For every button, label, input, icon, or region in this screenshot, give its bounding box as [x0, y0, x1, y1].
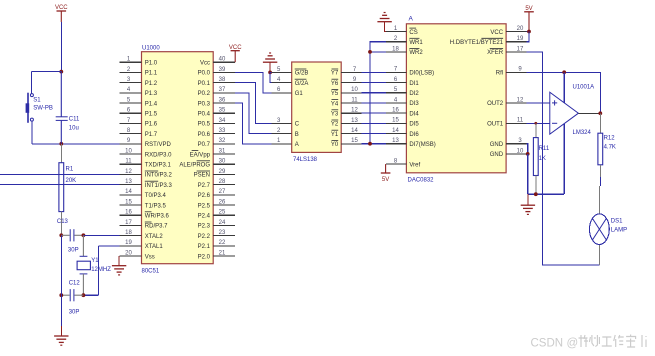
wire Rfl feedback [527, 72, 601, 113]
svg-text:SW-PB: SW-PB [33, 106, 53, 112]
svg-text:21: 21 [219, 250, 226, 256]
svg-text:P1.7: P1.7 [145, 132, 158, 138]
74LS138 pin 4 G2A [271, 77, 308, 87]
svg-text:12: 12 [125, 169, 132, 175]
svg-text:11: 11 [351, 97, 358, 103]
svg-text:RXD/P3.0: RXD/P3.0 [145, 152, 172, 158]
svg-text:P2.2: P2.2 [198, 234, 211, 240]
svg-text:P1.0: P1.0 [145, 61, 158, 67]
wire op-amp V- pin [563, 124, 565, 194]
U1000 pin 2 P1.1 [120, 67, 158, 77]
junction R11 bottom [534, 192, 538, 196]
svg-text:P1.2: P1.2 [145, 81, 158, 87]
wire R1 to C13 node [60, 212, 62, 236]
DAC0832 pin 20 VCC [490, 26, 526, 36]
svg-text:10: 10 [351, 87, 358, 93]
svg-text:P1.3: P1.3 [145, 91, 158, 97]
wire INT1/P3.3 net [0, 184, 120, 186]
junction G2B/G2A [268, 71, 272, 75]
74LS138 pin 5 G2B [271, 67, 308, 77]
svg-text:35: 35 [219, 108, 226, 114]
U1000 pin 22 P2.1 [198, 240, 236, 250]
svg-text:25: 25 [219, 210, 226, 216]
svg-text:P1.1: P1.1 [145, 71, 158, 77]
svg-text:P1.4: P1.4 [145, 101, 158, 107]
svg-text:13: 13 [125, 179, 132, 185]
U1000 pin 29 PSEN [194, 169, 236, 179]
74LS138 pin 13 Y2 [331, 118, 362, 128]
ground (74LS138 enables) [263, 53, 277, 62]
svg-text:10: 10 [517, 148, 524, 154]
U1000 pin 24 P2.3 [198, 220, 236, 230]
svg-text:Y2: Y2 [331, 122, 339, 128]
DAC0832 pin 8 Vref [386, 159, 421, 169]
svg-text:XFER: XFER [487, 50, 504, 56]
svg-text:Rfl: Rfl [496, 71, 503, 77]
U1000 pin 11 TXD/P3.1 [120, 159, 172, 169]
svg-text:26: 26 [219, 199, 226, 205]
watermark CSDN [531, 338, 579, 350]
74LS138 pin 12 Y3 [331, 108, 362, 118]
U1000 pin 13 INT1/P3.3 [120, 179, 173, 189]
svg-text:VCC: VCC [490, 30, 503, 36]
svg-text:30: 30 [219, 159, 226, 165]
wire P0.3 to A [235, 103, 271, 144]
svg-text:T0/P3.4: T0/P3.4 [145, 193, 167, 199]
DAC0832 pin 2 WR1 [386, 36, 423, 46]
svg-text:28: 28 [219, 179, 226, 185]
junction crystal/C12 [82, 293, 86, 297]
DAC0832 pin 15 DI5 [386, 118, 419, 128]
lamp DS1 [590, 214, 628, 245]
U1000 pin 26 P2.5 [198, 199, 236, 209]
svg-text:12: 12 [517, 97, 524, 103]
svg-text:P1.6: P1.6 [145, 122, 158, 128]
wire Y2 to DI5 [362, 122, 386, 124]
junction C13 left [59, 233, 63, 237]
svg-text:38: 38 [219, 77, 226, 83]
DAC0832 pin 1 CS [386, 26, 418, 36]
svg-text:RST/VPD: RST/VPD [145, 142, 172, 148]
DAC0832 pin 5 DI2 [386, 87, 419, 97]
op-amp U1001A body [550, 92, 579, 134]
DAC0832 pin 12 OUT2 [487, 97, 526, 107]
DAC0832 pin 7 DI0(LSB) [386, 67, 434, 77]
wire Y3 to DI4 [362, 112, 386, 114]
74LS138 pin 11 Y4 [331, 97, 362, 107]
U1000 pin 31 EA/Vpp [190, 148, 236, 158]
svg-text:Vss: Vss [145, 254, 155, 260]
wire RST net [32, 143, 120, 145]
74LS138 pin 14 Y1 [331, 128, 362, 138]
junction WR tie to DI7 [368, 142, 372, 146]
U1000 pin 7 P1.6 [120, 118, 158, 128]
svg-text:P0.3: P0.3 [198, 101, 211, 107]
ground (crystal rail) [54, 336, 68, 345]
svg-text:10: 10 [125, 148, 132, 154]
junction WR2 [368, 50, 372, 54]
svg-text:40: 40 [219, 57, 226, 63]
svg-text:TXD/P3.1: TXD/P3.1 [145, 163, 172, 169]
U1000 pin 36 P0.3 [198, 97, 236, 107]
svg-text:11: 11 [125, 159, 132, 165]
74LS138 pin 9 Y6 [331, 77, 362, 87]
svg-text:Y1: Y1 [331, 132, 339, 138]
junction R11 top [534, 122, 537, 125]
wire R12 to lamp [599, 165, 601, 177]
wire WR1/WR2 tie [370, 42, 386, 144]
svg-text:24: 24 [219, 220, 226, 226]
wire left rail [60, 235, 62, 295]
wire P0.2 to B [235, 93, 271, 134]
svg-text:Y0: Y0 [331, 142, 339, 148]
74LS138 pin 6 G1 [271, 87, 303, 97]
U1000 pin 33 P0.6 [198, 128, 236, 138]
svg-text:R12: R12 [604, 135, 616, 141]
U1000 pin 23 P2.2 [198, 230, 236, 240]
svg-text:17: 17 [125, 220, 132, 226]
svg-text:DI4: DI4 [409, 111, 419, 117]
wire Y6 to DI1 [362, 82, 386, 84]
decoder 74LS138 body [292, 62, 342, 152]
svg-text:G/2A: G/2A [295, 81, 309, 87]
U1000 pin 25 P2.4 [198, 210, 236, 220]
svg-text:5V: 5V [382, 177, 389, 183]
junction C12 left [59, 293, 63, 297]
svg-text:16: 16 [125, 210, 132, 216]
U1000 pin 35 P0.4 [198, 108, 236, 118]
svg-text:C12: C12 [69, 281, 81, 287]
svg-text:Y5: Y5 [331, 91, 339, 97]
svg-text:P0.4: P0.4 [198, 112, 211, 118]
wire RST to R1 [60, 144, 62, 163]
junction VCC/switch/C11 [59, 70, 63, 74]
wire VCC rail down [60, 22, 62, 72]
svg-text:Y4: Y4 [331, 101, 339, 107]
DAC0832 pin 18 WR2 [386, 46, 423, 56]
svg-text:C13: C13 [57, 219, 69, 225]
capacitor C12 30P [61, 281, 83, 316]
U1000 pin 19 XTAL1 [120, 240, 164, 250]
svg-text:13: 13 [351, 118, 358, 124]
svg-text:32: 32 [219, 138, 226, 144]
ground (DAC CS) [377, 13, 391, 22]
U1000 pin 28 P2.7 [198, 179, 236, 189]
svg-text:Y3: Y3 [331, 112, 339, 118]
svg-text:U1000: U1000 [142, 46, 160, 52]
svg-text:Vref: Vref [409, 162, 420, 168]
resistor R12 4.7K [598, 133, 603, 165]
DAC0832 pin 4 DI3 [386, 97, 419, 107]
svg-text:P2.1: P2.1 [198, 244, 211, 250]
U1000 pin 34 P0.5 [198, 118, 236, 128]
svg-text:20: 20 [125, 250, 132, 256]
svg-text:Vcc: Vcc [200, 61, 210, 67]
wire XFER to lamp return [527, 52, 600, 265]
wire switch to RST [31, 121, 33, 144]
svg-text:DI2: DI2 [409, 91, 419, 97]
svg-text:18: 18 [392, 46, 399, 52]
svg-text:DI0(LSB): DI0(LSB) [409, 71, 434, 77]
wire op-amp output [578, 112, 600, 114]
svg-text:P2.3: P2.3 [198, 224, 211, 230]
wire XTAL1 [98, 245, 119, 247]
svg-text:DI1: DI1 [409, 81, 419, 87]
wire rail to ground [60, 295, 62, 326]
capacitor C13 30P [57, 219, 84, 254]
svg-text:H.DBYTE1/BYTE21: H.DBYTE1/BYTE21 [450, 40, 504, 46]
svg-text:37: 37 [219, 87, 226, 93]
wire Y5 to DI2 [362, 92, 386, 94]
svg-text:14: 14 [351, 128, 358, 134]
svg-text:Y7: Y7 [331, 71, 339, 77]
svg-text:G1: G1 [295, 91, 304, 97]
74LS138 pin 7 Y7 [331, 67, 362, 77]
svg-text:Y6: Y6 [331, 81, 339, 87]
DAC0832 pin 13 DI7(MSB) [386, 138, 436, 148]
svg-text:B: B [295, 132, 299, 138]
U1000 pin 8 P1.7 [120, 128, 158, 138]
U1000 pin 15 T1/P3.5 [120, 199, 167, 209]
svg-text:INT0/P3.2: INT0/P3.2 [145, 173, 173, 179]
DAC DAC0832 body [406, 24, 506, 173]
svg-text:G/2B: G/2B [295, 71, 309, 77]
wire ground to G2A [270, 72, 271, 82]
svg-text:P0.6: P0.6 [198, 132, 211, 138]
svg-text:C: C [295, 122, 300, 128]
junction RST [59, 142, 63, 146]
svg-text:GND: GND [490, 142, 504, 148]
wire P0.0 to G1 [235, 72, 271, 92]
wire Vss to ground [118, 256, 120, 266]
svg-text:RD/P3.7: RD/P3.7 [145, 224, 168, 230]
svg-text:R11: R11 [539, 146, 550, 152]
svg-text:12MHZ: 12MHZ [91, 267, 111, 273]
junction feedback/V+ [562, 70, 566, 74]
svg-text:14: 14 [392, 128, 399, 134]
wire ground to CS [385, 22, 386, 32]
wire DAC GND pins [527, 144, 528, 154]
wire GND down [527, 154, 529, 194]
svg-text:C11: C11 [69, 116, 80, 122]
svg-text:R1: R1 [66, 166, 74, 172]
svg-text:P0.5: P0.5 [198, 122, 211, 128]
svg-text:WR1: WR1 [409, 40, 423, 46]
wire OUT1 to -input [527, 122, 550, 124]
svg-text:74LS138: 74LS138 [293, 157, 318, 163]
U1000 pin 6 P1.5 [120, 108, 158, 118]
svg-text:P1.5: P1.5 [145, 112, 158, 118]
U1000 pin 10 RXD/P3.0 [120, 148, 173, 158]
svg-text:ALE/PROG: ALE/PROG [179, 163, 210, 169]
svg-text:XTAL2: XTAL2 [145, 234, 164, 240]
svg-text:INT1/P3.3: INT1/P3.3 [145, 183, 173, 189]
svg-text:29: 29 [219, 169, 226, 175]
svg-text:WR/P3.6: WR/P3.6 [145, 214, 170, 220]
power VCC (pin 40) [229, 45, 242, 62]
svg-text:22: 22 [219, 240, 226, 246]
svg-text:A: A [295, 142, 299, 148]
svg-text:DI3: DI3 [409, 101, 419, 107]
svg-text:31: 31 [219, 148, 226, 154]
svg-text:S1: S1 [33, 97, 41, 103]
svg-text:16: 16 [392, 108, 399, 114]
svg-text:20: 20 [517, 26, 524, 32]
svg-text:15: 15 [351, 138, 358, 144]
U1000 pin 32 P0.7 [198, 138, 236, 148]
svg-text:CS: CS [409, 30, 417, 36]
wire Y7 to DI0 [362, 71, 386, 73]
U1000 pin 27 P2.6 [198, 189, 236, 199]
wire rail to ground [527, 194, 529, 205]
svg-text:@: @ [567, 338, 579, 350]
svg-text:LAMP: LAMP [611, 228, 627, 234]
switch S1 SW-PB [26, 93, 53, 123]
svg-text:CSDN: CSDN [531, 338, 564, 350]
microcontroller U1000 80C51 body [142, 52, 214, 264]
wire ground rail [528, 193, 565, 195]
U1000 pin 3 P1.2 [120, 77, 158, 87]
svg-text:15: 15 [392, 118, 399, 124]
U1000 pin 37 P0.2 [198, 87, 236, 97]
DAC0832 pin 14 DI6 [386, 128, 419, 138]
U1000 pin 18 XTAL2 [120, 230, 164, 240]
svg-text:P2.4: P2.4 [198, 214, 211, 220]
svg-text:36: 36 [219, 97, 226, 103]
wire XTAL2 [83, 234, 119, 236]
wire -input to R11 [535, 123, 537, 137]
svg-text:5V: 5V [525, 6, 532, 12]
svg-text:P2.5: P2.5 [198, 203, 211, 209]
wire Y0 to DI7 [362, 143, 386, 145]
U1000 pin 14 T0/P3.4 [120, 189, 167, 199]
svg-text:19: 19 [125, 240, 132, 246]
svg-text:11: 11 [517, 118, 524, 124]
74LS138 pin 10 Y5 [331, 87, 362, 97]
U1000 pin 20 Vss [120, 250, 155, 260]
svg-text:DI5: DI5 [409, 122, 419, 128]
svg-text:P0.2: P0.2 [198, 91, 211, 97]
74LS138 pin 15 Y0 [331, 138, 362, 148]
svg-text:P2.6: P2.6 [198, 193, 211, 199]
svg-text:17: 17 [517, 46, 524, 52]
wire INT0/P3.2 net [0, 173, 120, 175]
junction 5V/pin19 [527, 30, 531, 34]
svg-text:30P: 30P [68, 247, 79, 253]
svg-text:30P: 30P [69, 309, 80, 315]
svg-text:P2.0: P2.0 [198, 254, 211, 260]
svg-text:P0.0: P0.0 [198, 71, 211, 77]
svg-text:WR2: WR2 [409, 50, 423, 56]
power VCC [55, 5, 68, 22]
wire Y1 to DI6 [362, 133, 386, 135]
U1000 pin 12 INT0/P3.2 [120, 169, 173, 179]
svg-text:34: 34 [219, 118, 226, 124]
svg-text:OUT1: OUT1 [487, 122, 504, 128]
svg-text:10u: 10u [69, 125, 79, 131]
wire to switch S1 [32, 71, 62, 73]
resistor R1 20K [59, 163, 64, 212]
crystal Y1 12MHZ [77, 235, 111, 295]
junction output node [598, 111, 602, 115]
74LS138 pin 3 C [271, 118, 299, 128]
wire OUT2 to +input [527, 102, 550, 104]
wire P0.1 to C [235, 83, 271, 124]
svg-text:LM324: LM324 [573, 130, 592, 136]
svg-text:1K: 1K [539, 156, 546, 162]
74LS138 pin 1 A [271, 138, 298, 148]
svg-text:23: 23 [219, 230, 226, 236]
svg-text:4.7K: 4.7K [604, 145, 616, 151]
DAC0832 pin 17 XFER [487, 46, 526, 56]
svg-text:P2.7: P2.7 [198, 183, 211, 189]
wire Y4 to DI3 [362, 102, 386, 104]
svg-text:33: 33 [219, 128, 226, 134]
svg-text:VCC: VCC [55, 5, 68, 11]
DAC0832 pin 3 GND [490, 138, 527, 148]
U1000 pin 39 P0.0 [198, 67, 236, 77]
svg-text:14: 14 [125, 189, 132, 195]
U1000 pin 38 P0.1 [198, 77, 236, 87]
U1000 pin 30 ALE/PROG [179, 159, 235, 169]
svg-text:XTAL1: XTAL1 [145, 244, 164, 250]
svg-text:EA/Vpp: EA/Vpp [190, 152, 211, 158]
U1000 pin 4 P1.3 [120, 87, 158, 97]
wire pin19 to 5V [527, 32, 530, 42]
power 5V (DAC VCC) [524, 6, 534, 32]
svg-text:18: 18 [125, 230, 132, 236]
svg-text:U1001A: U1001A [573, 84, 595, 90]
DAC0832 pin 16 DI4 [386, 108, 419, 118]
power 5V (Vref) [381, 164, 391, 183]
svg-text:PSEN: PSEN [194, 173, 210, 179]
svg-text:GND: GND [490, 152, 504, 158]
svg-text:13: 13 [392, 138, 399, 144]
svg-text:P0.7: P0.7 [198, 142, 211, 148]
capacitor C11 10u [56, 72, 80, 144]
svg-text:27: 27 [219, 189, 226, 195]
U1000 pin 17 RD/P3.7 [120, 220, 169, 230]
U1000 pin 40 Vcc [200, 57, 235, 67]
DAC0832 pin 11 OUT1 [487, 118, 526, 128]
DAC0832 pin 19 H.DBYTE1/BYTE21 [450, 36, 527, 46]
svg-text:DS1: DS1 [611, 218, 623, 224]
svg-text:20K: 20K [66, 178, 77, 184]
wire VCC pin20 [527, 31, 530, 33]
U1000 pin 9 RST/VPD [120, 138, 172, 148]
svg-text:DAC0832: DAC0832 [408, 177, 435, 183]
svg-text:A: A [409, 16, 414, 23]
junction XTAL2/crystal [82, 233, 86, 237]
U1000 pin 16 WR/P3.6 [120, 210, 170, 220]
svg-text:OUT2: OUT2 [487, 101, 504, 107]
74LS138 pin 2 B [271, 128, 298, 138]
U1000 pin 5 P1.4 [120, 97, 158, 107]
wire op-amp V+ pin [563, 72, 565, 103]
svg-text:80C51: 80C51 [142, 268, 160, 274]
DAC0832 pin 6 DI1 [386, 77, 419, 87]
U1000 pin 1 P1.0 [120, 57, 158, 67]
ground (Vss) [112, 266, 126, 275]
svg-text:DI7(MSB): DI7(MSB) [409, 142, 435, 148]
junction GND pins [526, 152, 530, 156]
svg-text:12: 12 [351, 108, 358, 114]
svg-text:39: 39 [219, 67, 226, 73]
svg-text:DI6: DI6 [409, 132, 419, 138]
svg-text:15: 15 [125, 199, 132, 205]
ground (analog) [521, 205, 535, 214]
resistor R11 1K [533, 138, 538, 176]
